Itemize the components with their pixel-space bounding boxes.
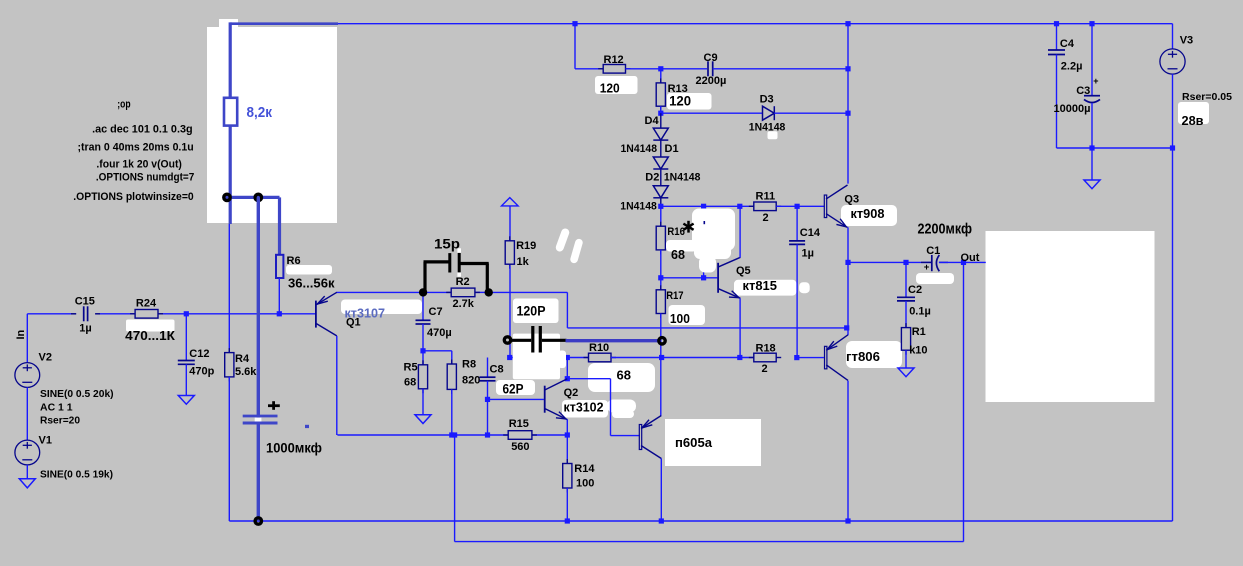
svg-text:C12: C12 [189, 348, 209, 360]
label In [15, 329, 27, 339]
voltage V2 [15, 363, 40, 388]
svg-text:68: 68 [404, 377, 416, 389]
node rail435 fb [452, 432, 457, 437]
svg-text:28в: 28в [1182, 113, 1204, 128]
node R6 base [277, 311, 282, 316]
ring node bottom [255, 518, 261, 524]
resistor R1 [901, 328, 910, 351]
transistor Q4 gt806 [825, 346, 827, 369]
svg-text:Q3: Q3 [844, 194, 859, 206]
svg-text:470p: 470p [189, 366, 214, 378]
wire Q1 emitter row [336, 291, 451, 293]
svg-text:.OPTIONS plotwinsize=0: .OPTIONS plotwinsize=0 [73, 191, 193, 203]
white patch gt806 [846, 341, 902, 368]
ring navy right [659, 338, 665, 344]
svg-text:+: + [1093, 76, 1098, 86]
svg-text:In: In [15, 329, 27, 339]
node rail435 R8 [449, 432, 454, 437]
wire out rail [848, 261, 932, 263]
svg-text:1N4148: 1N4148 [749, 122, 786, 134]
node R18 row x739 [737, 355, 742, 360]
svg-text:2: 2 [763, 212, 769, 224]
capacitor C15 [83, 306, 85, 321]
wire R13 to D4 [660, 113, 662, 128]
wire R10 left [510, 357, 589, 359]
wire top rail [338, 23, 1173, 25]
wire Q5 collector up [739, 206, 741, 257]
svg-text:кт815: кт815 [743, 278, 778, 293]
svg-text:2200µ: 2200µ [696, 75, 727, 87]
wire C8 top [487, 358, 489, 378]
wire C8 bottom [487, 381, 489, 400]
svg-text:.four 1k 20 v(Out): .four 1k 20 v(Out) [96, 159, 182, 171]
resistor R14 [566, 435, 568, 464]
svg-text:AC 1 1: AC 1 1 [40, 403, 73, 414]
wire Q3 emitter down [847, 227, 849, 335]
thick wire horiz [226, 196, 280, 199]
white patch 62P [496, 380, 535, 395]
svg-text:Rser=0.05: Rser=0.05 [1182, 92, 1232, 103]
svg-text:k10: k10 [909, 345, 927, 357]
svg-text:120: 120 [600, 81, 620, 96]
svg-text:SINE(0 0.5 19k): SINE(0 0.5 19k) [40, 470, 113, 481]
svg-text:R12: R12 [604, 54, 624, 66]
wire R11 to Q3 base [776, 205, 824, 207]
white patch R12 value [595, 76, 638, 94]
svg-text:R10: R10 [589, 342, 609, 354]
wire cap bottom rail [1057, 147, 1173, 149]
white patch 36-56k [286, 265, 332, 275]
node top C3 [1089, 21, 1094, 26]
capacitor C14 [796, 206, 798, 241]
voltage V1 [15, 440, 40, 465]
thick wire R6 drop [278, 197, 281, 255]
node R12-R13-C9 [658, 66, 663, 71]
svg-text:820: 820 [462, 375, 480, 387]
svg-text:68: 68 [617, 368, 631, 383]
thick wire 8.2k lower [229, 126, 232, 224]
svg-text:470...1К: 470...1К [125, 328, 175, 343]
svg-text:2: 2 [762, 363, 768, 375]
svg-text:120P: 120P [517, 304, 546, 319]
wire D4 to D1 [660, 141, 662, 157]
wire V2 to V1 [26, 387, 28, 440]
svg-text:R18: R18 [756, 343, 776, 355]
node rail435 C8 [485, 432, 490, 437]
node D3 row right [845, 111, 850, 116]
svg-text:1000мкф: 1000мкф [266, 439, 322, 455]
svg-text:.OPTIONS numdgt=7: .OPTIONS numdgt=7 [96, 172, 194, 184]
svg-text:кт3107: кт3107 [345, 307, 386, 321]
resistor R17 [660, 278, 662, 290]
wire R6 to rail [278, 278, 280, 314]
svg-text:R17: R17 [666, 290, 683, 302]
cap 15p [423, 262, 426, 293]
svg-text:C2: C2 [908, 284, 922, 296]
resistor R4 [225, 353, 234, 377]
svg-text:100: 100 [576, 478, 594, 490]
svg-text:R8: R8 [462, 359, 476, 371]
dot 15p right [485, 288, 493, 296]
svg-text:.ac dec 101 0.1 0.3g: .ac dec 101 0.1 0.3g [92, 124, 193, 136]
node R18 row x661 [659, 355, 664, 360]
wire bias rail [661, 205, 754, 207]
capacitor C8 [480, 376, 496, 378]
node bias rail x703 [701, 204, 706, 209]
svg-text:5.6k: 5.6k [235, 366, 257, 378]
wire corner down x567 [566, 292, 568, 328]
svg-text:R15: R15 [509, 418, 529, 430]
wire Q2 base [488, 398, 544, 400]
wire R17 down to p605a emitter [660, 314, 662, 416]
node bias rail x739 [737, 204, 742, 209]
resistor R15 [508, 431, 532, 440]
svg-text:62P: 62P [503, 382, 524, 397]
svg-text:C9: C9 [704, 52, 718, 64]
svg-text:0.1µ: 0.1µ [909, 306, 931, 318]
svg-text:;op: ;op [117, 99, 130, 111]
svg-text:R2: R2 [456, 276, 470, 288]
ring 120P left [504, 337, 510, 343]
wire D3 cathode [774, 112, 848, 114]
node R18 row C14 [794, 355, 799, 360]
svg-text:D3: D3 [760, 94, 774, 106]
svg-text:C3: C3 [1076, 85, 1090, 97]
transistor Q5 kt815 [717, 263, 719, 293]
white smudge B [569, 238, 583, 264]
diode D1 1N4148 [653, 157, 668, 169]
white patch R13 value [667, 93, 712, 110]
resistor R10 [589, 353, 612, 362]
svg-text:560: 560 [511, 441, 529, 453]
ground C12 [178, 396, 194, 405]
svg-text:V3: V3 [1180, 35, 1193, 47]
node Q2 collector [565, 376, 570, 381]
svg-text:470µ: 470µ [427, 327, 452, 339]
ground V1 [19, 479, 35, 488]
svg-text:Q2: Q2 [564, 387, 579, 399]
wire Q4 collector down [847, 381, 849, 521]
white patch under C1 [916, 273, 954, 284]
diode D3 1N4148 [763, 106, 775, 120]
white patch top-left [207, 27, 337, 223]
cap 1000uF plates [243, 415, 278, 418]
wire input rail [27, 313, 71, 315]
resistor 8.2k hand [224, 98, 237, 126]
thick wire 8.2k upper [229, 22, 232, 97]
diode D2 1N4148 [653, 186, 668, 198]
svg-text:SINE(0 0.5 20k): SINE(0 0.5 20k) [40, 389, 114, 400]
node out rail left [845, 260, 850, 265]
svg-text:1N4148: 1N4148 [620, 201, 657, 213]
svg-text:;tran 0 40ms 20ms 0.1u: ;tran 0 40ms 20ms 0.1u [78, 141, 194, 153]
svg-text:D1: D1 [665, 143, 679, 155]
wire D1 to D2 [660, 170, 662, 186]
svg-text:C15: C15 [75, 296, 95, 308]
svg-text:120: 120 [669, 93, 691, 109]
wire R4 col upper [228, 224, 230, 353]
wire x703 bypass [703, 206, 705, 277]
wire R12 to C9 node [626, 68, 708, 70]
resistor R2 [451, 288, 475, 297]
svg-text:1N4148: 1N4148 [664, 171, 701, 183]
white smudge A [555, 227, 571, 252]
svg-text:гт806: гт806 [846, 349, 880, 364]
wire V+ branch x575 [574, 24, 576, 69]
svg-text:V1: V1 [39, 435, 52, 447]
wire across y328 [567, 327, 846, 329]
svg-text:36...56к: 36...56к [288, 277, 335, 291]
node R10 x567 [565, 355, 570, 360]
svg-text:2.7k: 2.7k [453, 298, 475, 310]
white patch R17 value [669, 305, 706, 325]
ground R5 [422, 389, 424, 415]
node bottom Q4 [845, 518, 850, 523]
svg-text:C8: C8 [490, 364, 504, 376]
svg-text:C4: C4 [1060, 38, 1075, 50]
resistor R19 [509, 206, 511, 241]
wire emitter to corner [489, 291, 568, 293]
net arrow [502, 198, 519, 206]
resistor R16 [660, 206, 662, 226]
svg-text:C7: C7 [429, 306, 443, 318]
svg-text:R6: R6 [287, 255, 301, 267]
node C9 right [845, 66, 850, 71]
wire p605a collector down [660, 459, 662, 522]
transistor Q3 kt908 [824, 195, 826, 218]
svg-text:Q5: Q5 [736, 265, 751, 277]
wire R4 down [228, 377, 230, 521]
asterisk [687, 221, 690, 233]
white patch near D3 [768, 131, 778, 139]
white patch R16 area [692, 209, 735, 251]
svg-text:Rser=20: Rser=20 [40, 416, 80, 427]
wire q5 base row [661, 277, 718, 279]
svg-text:1N4148: 1N4148 [621, 143, 658, 155]
wire Q5 emitter down [739, 298, 741, 357]
svg-text:8,2к: 8,2к [247, 105, 273, 121]
svg-text:1k: 1k [517, 256, 530, 268]
wire R1 gnd [905, 350, 907, 368]
wire R18 row left [662, 357, 754, 359]
ring node left [224, 194, 230, 200]
diode D4 1N4148 [653, 128, 668, 140]
svg-text:100: 100 [670, 312, 690, 326]
wire In down [26, 314, 28, 363]
node q5 base row mid [701, 275, 706, 280]
svg-text:C14: C14 [800, 227, 821, 239]
thick wire 1000uF down [257, 422, 260, 522]
svg-text:1µ: 1µ [802, 248, 814, 260]
wire right frame [1172, 148, 1174, 521]
node q5 base row left [658, 275, 663, 280]
white patch bottom-right [986, 231, 1155, 402]
white patch kt3107 [341, 300, 422, 315]
svg-text:R1: R1 [912, 326, 926, 338]
svg-text:+: + [924, 262, 930, 273]
wire C9 to right column [713, 68, 848, 70]
svg-text:R14: R14 [574, 463, 595, 475]
svg-text:кт908: кт908 [851, 206, 885, 221]
node D3 row left [658, 111, 663, 116]
voltage V3 [1172, 24, 1174, 49]
node bias rail x660 [658, 204, 663, 209]
svg-text:C1: C1 [926, 245, 940, 257]
wire Q2 emitter down [566, 419, 568, 435]
wire D2 to bias rail [660, 199, 662, 207]
wire Q4 base [797, 357, 824, 359]
resistor R12 [603, 65, 625, 74]
node R10 x509 [507, 355, 512, 360]
svg-text:R5: R5 [404, 362, 418, 374]
node C7 R5 [420, 348, 425, 353]
resistor R18 [754, 353, 776, 362]
white patch kt3102 [562, 400, 608, 418]
wire Q1 collector down [336, 336, 338, 435]
node x575 top [572, 21, 577, 26]
thick navy line [566, 339, 660, 342]
capacitor C3 [1091, 24, 1093, 96]
node C12 [184, 311, 189, 316]
wire R10 right [611, 357, 662, 359]
thick wire 1000uF col [257, 197, 260, 417]
resistor R11 [754, 202, 776, 211]
wire right column upper [847, 24, 849, 184]
svg-text:15p: 15p [434, 237, 460, 252]
ground R1 [898, 368, 914, 377]
svg-text:R11: R11 [756, 191, 776, 203]
wire V1 to gnd [26, 465, 28, 479]
node bias rail x797 [795, 204, 800, 209]
wire feedback [454, 435, 456, 542]
svg-text:п605а: п605а [675, 435, 713, 450]
resistor R6 [276, 255, 283, 278]
blue dash [305, 425, 309, 428]
svg-text:V2: V2 [39, 352, 52, 364]
svg-text:D2: D2 [645, 171, 659, 183]
node out C2 [903, 260, 908, 265]
white patch R24 value [126, 320, 175, 332]
node rail435 R14 [565, 432, 570, 437]
capacitor C7 [422, 292, 424, 320]
svg-text:68: 68 [671, 248, 685, 262]
svg-text:1µ: 1µ [79, 323, 91, 335]
resistor R24 [135, 310, 158, 319]
white patch 120P [513, 299, 559, 324]
cap 120P [511, 339, 531, 342]
svg-text:Out: Out [961, 252, 980, 264]
wire bottom rail [229, 520, 1172, 522]
resistor R5 [422, 351, 424, 365]
wire R19 down [509, 266, 511, 358]
svg-text:кт3102: кт3102 [564, 400, 604, 415]
capacitor C2 [905, 262, 907, 297]
svg-text:R24: R24 [136, 298, 157, 310]
thick wire 8.2k top [230, 22, 338, 25]
resistor R13 [660, 69, 662, 83]
node x848 top [845, 21, 850, 26]
svg-text:D4: D4 [645, 115, 660, 127]
node bottom p605a [659, 518, 664, 523]
transistor Q1 kt3107 [315, 301, 317, 328]
node y328 right [844, 325, 849, 330]
wire out rail right [939, 261, 986, 263]
transistor Q2 kt3102 [544, 386, 546, 413]
white patch kt908 [841, 205, 897, 226]
wire Q2 collector col [566, 358, 568, 379]
capacitor C12 [185, 314, 187, 361]
capacitor C4 [1056, 24, 1058, 50]
cap 1000uF plus [268, 404, 280, 407]
white patch kt815 [734, 280, 797, 296]
wire gnd stub [1091, 148, 1093, 180]
node C8 Q2base [485, 397, 490, 402]
wire C7-R8 row [423, 350, 452, 352]
svg-text:2.2µ: 2.2µ [1061, 61, 1083, 73]
wire rail435 [337, 434, 508, 436]
svg-text:2200мкф: 2200мкф [918, 222, 973, 238]
ground C3 [1084, 180, 1100, 189]
svg-text:10000µ: 10000µ [1054, 103, 1091, 115]
node cap rail V3 [1170, 145, 1175, 150]
white notch top [457, 248, 461, 253]
white patch 28v [1178, 102, 1209, 124]
node cap rail C3 [1089, 145, 1094, 150]
svg-text:R19: R19 [516, 240, 536, 252]
node out label [961, 260, 966, 265]
wire D3 anode [661, 112, 763, 114]
wire Q2C to p605a base [567, 378, 610, 380]
white patch R10 value [588, 363, 655, 392]
capacitor C1 [921, 261, 932, 263]
ring node mid [255, 194, 261, 200]
node bottom R14 [565, 518, 570, 523]
svg-text:R4: R4 [235, 353, 250, 365]
white patch center cap [513, 334, 560, 380]
svg-text:R16: R16 [667, 226, 685, 238]
white notch bottom [457, 272, 461, 276]
capacitor C9 [707, 61, 709, 76]
transistor p605a [639, 425, 641, 450]
node top C4 [1054, 21, 1059, 26]
white box p605a [665, 419, 761, 466]
resistor R8 [451, 351, 453, 364]
dot 15p left [419, 288, 427, 296]
